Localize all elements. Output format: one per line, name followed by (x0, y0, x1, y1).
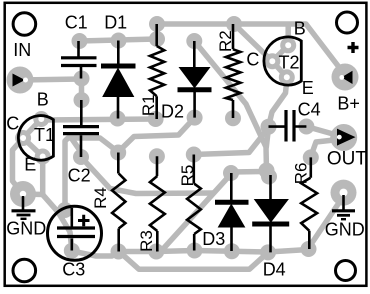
wire T1 emitter down to GND (40, 157, 46, 193)
wire GND right to R6 bottom (309, 196, 344, 248)
svg-text:B: B (37, 89, 49, 109)
wire T2 base link to B+ rail (285, 25, 291, 45)
node T1 base pad (33, 111, 49, 127)
transistor T2 (264, 37, 301, 85)
hole T2 collector (269, 58, 275, 64)
node C2 bottom pad (73, 149, 89, 165)
node GND right pad (331, 180, 357, 206)
node T2 base pad (280, 37, 296, 53)
wire bottom rail R4 to R6 bottom (119, 250, 309, 253)
wire C1 bottom to C2 top stacked link (79, 79, 85, 101)
resistor R4 (112, 153, 125, 252)
svg-text:C: C (246, 50, 259, 70)
svg-text:R2: R2 (216, 30, 235, 52)
svg-text:C1: C1 (65, 13, 88, 33)
wire top trace C1 top to D1 top to R1 bottom pad row (80, 39, 158, 41)
wire IN trace (20, 79, 82, 80)
node R3 top pad (149, 148, 165, 164)
wire drop to C2 bottom pad (72, 139, 81, 157)
node D4 top pad (261, 169, 277, 185)
node chain pad above D4 (259, 163, 275, 179)
node C3 bottom pad (64, 243, 80, 259)
node T2 collector pad (264, 53, 280, 69)
wire T1 collector down to GND pad (13, 138, 24, 192)
svg-text:C2: C2 (68, 165, 91, 185)
hole T1 emitter (40, 154, 46, 160)
svg-text:IN: IN (13, 40, 31, 60)
capacitor C4 (269, 110, 307, 142)
wire T2 base to collector link (272, 45, 288, 61)
svg-text:D2: D2 (161, 101, 184, 121)
wire GND pad link (23, 191, 43, 197)
node R5 bottom pad (187, 243, 203, 259)
mounting hole bottom-left (13, 259, 36, 282)
mounting hole top-left (13, 13, 36, 36)
capacitor C1 (61, 41, 97, 79)
node R2 top pad (226, 16, 242, 32)
wire R2 top to T2 collector (234, 24, 272, 61)
node C1 top pad (72, 33, 88, 49)
svg-text:D4: D4 (263, 260, 286, 280)
node R4 bottom pad (111, 244, 127, 260)
node R6 bottom pad (301, 241, 317, 257)
transistor T1 (18, 116, 53, 161)
svg-text:B+: B+ (337, 94, 360, 114)
hole T2 base (285, 42, 291, 48)
node R6 top pad (303, 149, 319, 165)
svg-text:GND: GND (6, 219, 46, 239)
node R1 bottom pad (148, 111, 164, 127)
wire net C3 top up to C2 bottom, R4 top, D2 bottom (65, 118, 194, 210)
mounting hole bottom-right (336, 261, 356, 281)
hole GND left (20, 191, 26, 197)
diode D2 (178, 41, 212, 118)
node R2 bottom pad (225, 110, 241, 126)
svg-text:C3: C3 (62, 260, 85, 280)
wire R5 top to C4 left (194, 129, 268, 155)
wire lower rail R4 bottom to D4 bottom (119, 251, 269, 269)
node D2 top pad (186, 33, 202, 49)
hole B+ (339, 75, 344, 80)
wire T1 collector to emitter link (23, 138, 43, 157)
ground symbol left (12, 196, 36, 219)
hole IN (23, 78, 28, 83)
svg-text:R1: R1 (139, 94, 158, 116)
node C2 top pad (74, 92, 90, 108)
svg-text:R4: R4 (91, 187, 110, 209)
svg-text:OUT: OUT (327, 148, 368, 169)
node C1 bottom pad (74, 71, 90, 87)
hole GND right (340, 189, 348, 197)
node R4 top pad (110, 145, 126, 161)
node T1 emitter pad (35, 149, 51, 165)
svg-text:D1: D1 (104, 13, 127, 33)
hole T1 base (38, 116, 44, 122)
svg-text:B: B (294, 19, 306, 39)
svg-text:T1: T1 (34, 125, 55, 145)
node B+ arrow (342, 71, 353, 84)
node D1 bottom pad (110, 111, 126, 127)
svg-text:GND: GND (325, 220, 365, 240)
capacitor C2 (63, 100, 99, 157)
plus sign at B+ (348, 42, 359, 53)
ground symbol right (332, 195, 355, 219)
wire stacked pad link at R1 top (154, 24, 160, 39)
svg-text:T2: T2 (279, 53, 300, 73)
node D4 bottom pad (260, 244, 276, 260)
node D2 bottom pad (187, 110, 203, 126)
resistor R2 (226, 24, 241, 118)
node C4 left pad (261, 119, 277, 135)
node OUT arrow (337, 129, 356, 146)
hole T1 collector (20, 135, 26, 141)
wire C2 bottom to D3 diagonal (81, 157, 213, 194)
diode D1 (101, 41, 136, 119)
capacitor C3 electrolytic (48, 206, 102, 260)
svg-text:D3: D3 (202, 229, 225, 249)
diode D4 (252, 175, 289, 252)
hole OUT (337, 135, 342, 140)
svg-text:R3: R3 (137, 230, 156, 252)
resistor R1 (150, 24, 164, 119)
wire C3 bottom to R4 bottom (72, 251, 119, 256)
resistor R5 (187, 155, 201, 251)
wire C4 right to OUT pad (306, 127, 343, 138)
diode D3 (215, 173, 249, 251)
node R5 top pad (186, 147, 202, 163)
wire B+ rail from R1 top across to B+ pad (157, 24, 345, 75)
node GND left pad (10, 181, 36, 207)
wire D3 top diagonal to bottom rail (163, 174, 231, 249)
resistor R6 (301, 157, 317, 249)
resistor R3 (150, 156, 165, 251)
wire GND to C3 bottom (43, 195, 72, 250)
svg-text:C: C (6, 113, 19, 133)
svg-text:C4: C4 (298, 100, 321, 120)
wire T2 emitter down to C4 left (269, 78, 287, 127)
node IN arrow (13, 74, 26, 87)
svg-text:E: E (24, 155, 36, 175)
node D3 bottom pad (224, 243, 240, 259)
node C3 top pad (57, 202, 73, 218)
hole T2 emitter (284, 74, 290, 80)
node IN pad (7, 67, 34, 94)
wire D2 top diagonal down to D4 top chain (194, 41, 266, 171)
wire OUT pad to R6 top (311, 139, 343, 156)
node C4 right pad (298, 119, 314, 135)
node T2 emitter pad (279, 69, 295, 85)
wire trace T1 base to D1 bottom to R1 bottom (41, 119, 156, 120)
svg-text:R6: R6 (292, 163, 311, 185)
node D1 top pad (111, 33, 127, 49)
node D3 top pad (223, 165, 239, 181)
wire C4 left down to D4 top (266, 128, 269, 177)
wire D3 top to D4 top (231, 169, 267, 175)
svg-text:R5: R5 (178, 165, 197, 187)
wire T2 collector to emitter link (272, 61, 287, 77)
wire T1 base to collector link (23, 119, 41, 138)
node OUT pad (330, 124, 357, 151)
node T1 collector pad (15, 130, 31, 146)
node R3 bottom pad (148, 244, 164, 260)
node R1 top pad (149, 16, 165, 32)
node B+ pad (332, 64, 359, 91)
mounting hole top-right (337, 12, 358, 33)
node trace end pad below R1 top (149, 31, 165, 47)
svg-text:E: E (302, 78, 314, 98)
